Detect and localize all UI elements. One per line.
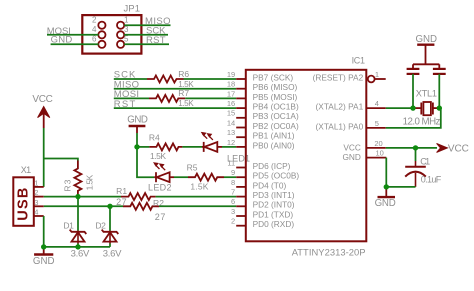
IC pin 1 RESET (inverted) xyxy=(313,70,386,83)
svg-text:PB5 (MOSI): PB5 (MOSI) xyxy=(253,92,298,102)
svg-text:2: 2 xyxy=(92,15,97,24)
svg-text:2: 2 xyxy=(34,188,38,197)
svg-text:PD1 (TXD): PD1 (TXD) xyxy=(253,209,294,219)
svg-text:USB: USB xyxy=(15,188,31,221)
wire MISO row xyxy=(114,88,236,90)
IC pin 4 XTAL2 xyxy=(366,107,386,109)
wire junction to R4 xyxy=(137,146,149,148)
wire R6 to pin 19 xyxy=(184,78,237,80)
svg-text:IC1: IC1 xyxy=(352,55,365,65)
svg-text:PB4 (OC1B): PB4 (OC1B) xyxy=(253,102,299,112)
X1 pin 2 xyxy=(34,196,44,198)
wire VCC row down to C1 xyxy=(415,148,417,161)
svg-text:R7: R7 xyxy=(178,88,189,98)
svg-text:3: 3 xyxy=(231,207,235,216)
IC pin 5 XTAL1 xyxy=(366,127,386,129)
wire R1 to IC pin 7 xyxy=(156,196,237,198)
svg-text:13: 13 xyxy=(227,128,235,137)
wire LED2 to R5 xyxy=(174,176,188,178)
svg-text:1: 1 xyxy=(124,15,129,24)
X1 pin 4 xyxy=(34,215,44,217)
IC pin 7 PD3 xyxy=(236,196,246,198)
wire LED1 to IC pin 12 xyxy=(222,146,236,148)
wire VCC branch to R3 top xyxy=(44,159,78,161)
svg-text:GND: GND xyxy=(342,152,360,162)
wire VCC down to USB pin1 xyxy=(43,128,45,187)
zener diode D1 xyxy=(63,197,90,260)
wire R4 to LED1 xyxy=(182,146,202,148)
wire GND to R4/LED2 junction xyxy=(136,133,138,147)
svg-text:R4: R4 xyxy=(149,133,160,143)
ground symbol (middle, above R4) xyxy=(127,114,148,133)
svg-text:18: 18 xyxy=(227,80,235,89)
svg-text:1.5K: 1.5K xyxy=(85,174,94,190)
svg-text:16: 16 xyxy=(227,99,235,108)
svg-text:R1: R1 xyxy=(116,186,127,196)
svg-text:JP1: JP1 xyxy=(124,4,141,15)
svg-text:19: 19 xyxy=(227,70,235,79)
svg-text:8: 8 xyxy=(231,178,235,187)
svg-text:GND: GND xyxy=(127,114,148,125)
svg-text:(XTAL1) PA0: (XTAL1) PA0 xyxy=(316,121,364,131)
svg-text:4: 4 xyxy=(375,99,379,108)
junction at GND / R4 / LED2 xyxy=(134,144,139,149)
ground symbol (bottom left) xyxy=(33,247,55,267)
wire RST row xyxy=(114,107,236,109)
wire crystal right node to pin5 loop xyxy=(386,108,441,128)
wire USB pin2 row (D-) to R1 xyxy=(44,196,121,198)
wire JP1 pin 1 to MISO label xyxy=(124,24,170,26)
junction at D1 bottom xyxy=(75,244,80,249)
resistor R2 xyxy=(123,198,165,222)
wire IC pin4 to crystal xyxy=(386,107,416,109)
wire GND to JP1 pin 6 xyxy=(51,43,99,45)
IC pin 13 PB1 xyxy=(236,136,246,138)
svg-text:RST: RST xyxy=(146,35,166,46)
svg-text:12.0 MHz: 12.0 MHz xyxy=(403,117,441,128)
svg-text:1.5K: 1.5K xyxy=(190,182,208,192)
IC pin 3 PD1 xyxy=(236,215,246,217)
svg-text:VCC: VCC xyxy=(343,142,361,152)
wire MOSI to JP1 pin 4 xyxy=(47,34,99,36)
wire R2 to IC pin 6 xyxy=(159,205,236,207)
svg-text:15: 15 xyxy=(227,109,235,118)
svg-text:D1: D1 xyxy=(63,221,74,231)
capacitor C2 (left crystal cap) xyxy=(407,64,420,74)
X1 pin 3 xyxy=(34,205,44,207)
ground symbol (top right, crystal caps) xyxy=(416,34,438,65)
svg-text:1.5K: 1.5K xyxy=(178,99,194,108)
wire IC pin10 down to GND junction xyxy=(385,158,387,187)
X1 pin 1 xyxy=(34,186,44,188)
connector X1 USB xyxy=(13,165,34,226)
IC pin 15 PB3 xyxy=(236,117,246,119)
wire R5 to IC pin 9 xyxy=(224,176,236,178)
svg-text:R5: R5 xyxy=(187,162,198,172)
wire USB pin3 row (D+) to R2 xyxy=(44,205,123,207)
svg-text:3.6V: 3.6V xyxy=(71,249,90,260)
resistor R5 xyxy=(187,162,224,191)
resistor R1 xyxy=(116,186,156,207)
supply symbol VCC (right arrow) xyxy=(437,143,469,154)
connector JP1 xyxy=(82,4,141,54)
svg-text:4: 4 xyxy=(92,25,97,34)
IC pin 2 PD0 xyxy=(236,225,246,227)
IC pin 18 PB6 xyxy=(236,88,246,90)
svg-text:11: 11 xyxy=(227,158,235,167)
svg-text:VCC: VCC xyxy=(32,94,53,105)
capacitor C1 xyxy=(405,156,442,187)
wire MOSI row xyxy=(114,97,149,99)
resistor R7 xyxy=(149,88,194,108)
svg-text:0.1uF: 0.1uF xyxy=(421,174,442,184)
wire junction down to LED2 row xyxy=(137,147,154,177)
svg-text:D2: D2 xyxy=(95,221,106,231)
svg-text:PB2 (OC0A): PB2 (OC0A) xyxy=(253,121,299,131)
junction at D2 top xyxy=(107,204,112,209)
svg-text:C1: C1 xyxy=(420,156,430,166)
svg-text:PB3 (OC1A): PB3 (OC1A) xyxy=(253,111,299,121)
wire JP1 pin 5 to RST label xyxy=(124,43,169,45)
svg-text:PB0 (AIN0): PB0 (AIN0) xyxy=(253,140,295,150)
LED LED2 xyxy=(148,163,174,192)
IC pin 8 PD4 xyxy=(236,186,246,188)
svg-text:ATTINY2313-20P: ATTINY2313-20P xyxy=(292,246,366,257)
IC U1 ATTINY2313 box xyxy=(246,55,366,257)
svg-text:6: 6 xyxy=(92,35,97,44)
wire GND bus xyxy=(44,246,110,248)
resistor R3 xyxy=(62,161,94,197)
IC pin 14 PB2 xyxy=(236,127,246,129)
svg-text:PD6 (ICP): PD6 (ICP) xyxy=(253,161,291,171)
svg-text:3.6V: 3.6V xyxy=(103,249,122,260)
svg-text:PB7 (SCK): PB7 (SCK) xyxy=(253,72,294,82)
svg-text:PD2 (INT0): PD2 (INT0) xyxy=(253,200,295,210)
junction at crystal right node xyxy=(437,105,442,110)
IC pin 10 GND xyxy=(366,157,386,159)
svg-text:3: 3 xyxy=(34,198,38,207)
svg-text:(RESET) PA2: (RESET) PA2 xyxy=(313,72,364,82)
svg-text:PD0 (RXD): PD0 (RXD) xyxy=(253,219,295,229)
capacitor C3 (right crystal cap) xyxy=(433,64,446,74)
svg-text:GND: GND xyxy=(416,34,438,45)
supply symbol VCC (top left) xyxy=(32,94,53,128)
svg-text:14: 14 xyxy=(227,118,235,127)
junction at VCC / C1 xyxy=(413,145,418,150)
IC pin 20 VCC xyxy=(366,147,386,149)
svg-text:(XTAL2) PA1: (XTAL2) PA1 xyxy=(316,102,364,112)
svg-text:XTL1: XTL1 xyxy=(416,88,437,98)
IC pin 9 PD5 xyxy=(236,176,246,178)
svg-text:5: 5 xyxy=(124,35,129,44)
svg-text:PD4 (T0): PD4 (T0) xyxy=(253,180,287,190)
wire right cap to crystal node xyxy=(438,74,440,108)
svg-text:R3: R3 xyxy=(62,179,72,191)
svg-text:20: 20 xyxy=(374,139,382,148)
IC pin 12 PB0 xyxy=(236,146,246,148)
svg-text:PB6 (MISO): PB6 (MISO) xyxy=(253,82,298,92)
resistor R4 xyxy=(149,133,183,162)
junction at GND bus left xyxy=(41,244,46,249)
IC pin 17 PB5 xyxy=(236,97,246,99)
wire SCK row xyxy=(114,78,147,80)
junction at crystal left node xyxy=(410,105,415,110)
svg-text:LED2: LED2 xyxy=(148,182,172,192)
svg-text:5: 5 xyxy=(375,119,379,128)
resistor R6 xyxy=(147,69,194,89)
junction at GND / C1 bottom xyxy=(384,184,389,189)
svg-text:4: 4 xyxy=(34,208,38,217)
wire left cap to crystal node xyxy=(412,74,414,108)
wire R7 to pin 17 xyxy=(185,97,236,99)
IC pin 11 PD6 xyxy=(236,167,246,169)
svg-text:6: 6 xyxy=(231,197,235,206)
IC pin 16 PB4 xyxy=(236,107,246,109)
LED LED1 xyxy=(202,133,250,164)
svg-text:1: 1 xyxy=(34,178,38,187)
crystal XTL1 xyxy=(403,88,441,127)
svg-text:12: 12 xyxy=(227,138,235,147)
IC pin 19 PB7 xyxy=(236,78,246,80)
svg-text:3: 3 xyxy=(124,25,129,34)
svg-text:PD3 (INT1): PD3 (INT1) xyxy=(253,190,295,200)
wire JP1 pin 3 to SCK label xyxy=(124,34,168,36)
svg-text:1: 1 xyxy=(375,70,379,79)
svg-text:X1: X1 xyxy=(21,165,32,175)
svg-text:PB1 (AIN1): PB1 (AIN1) xyxy=(253,131,295,141)
svg-text:2: 2 xyxy=(231,217,235,226)
wire IC pin20 to VCC arrow xyxy=(386,147,437,149)
svg-text:9: 9 xyxy=(231,168,235,177)
svg-text:7: 7 xyxy=(231,188,235,197)
wire USB pin4 down to GND bus xyxy=(43,216,45,247)
junction at R3 bottom / D1 top xyxy=(75,194,80,199)
svg-text:1.5K: 1.5K xyxy=(150,151,166,161)
wire C1 bottom to GND junction xyxy=(386,186,416,188)
svg-text:GND: GND xyxy=(33,256,55,267)
svg-text:PD5 (OC0B): PD5 (OC0B) xyxy=(253,171,300,181)
svg-text:VCC: VCC xyxy=(448,144,469,155)
svg-text:R6: R6 xyxy=(178,69,189,79)
IC pin 6 PD2 xyxy=(236,205,246,207)
ground symbol (right, below IC) xyxy=(375,187,396,209)
svg-text:10: 10 xyxy=(376,149,384,158)
zener diode D2 xyxy=(95,206,122,259)
svg-text:GND: GND xyxy=(375,198,396,209)
svg-text:17: 17 xyxy=(227,89,235,98)
svg-text:27: 27 xyxy=(155,212,166,222)
wire cap tops connector xyxy=(413,63,439,65)
